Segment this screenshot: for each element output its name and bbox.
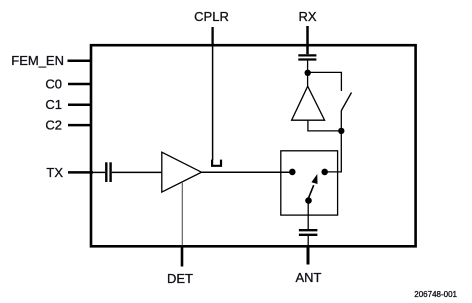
svg-text:TX: TX (46, 165, 63, 180)
svg-text:206748-001: 206748-001 (414, 290, 457, 299)
svg-text:ANT: ANT (296, 270, 322, 285)
wire CPLR inside (212, 46, 214, 160)
svg-text:C0: C0 (45, 76, 62, 91)
wire PA output to switch (202, 171, 293, 173)
wire TX stub (68, 171, 93, 174)
wire C1 stub (68, 104, 92, 107)
wire LNA input loop (308, 120, 341, 131)
switch SPDT box (281, 151, 338, 215)
wire CPLR stub (211, 27, 213, 46)
amplifier LNA (RX path) (292, 86, 325, 120)
switch arm arrow (309, 185, 314, 198)
wire ANT stub (307, 246, 310, 265)
wire C0 stub (68, 83, 92, 86)
amplifier PA (TX path) (162, 152, 202, 192)
wire C2 stub (68, 124, 92, 127)
switch bypass arm (open) (341, 93, 351, 112)
wire DET tap (181, 182, 183, 246)
capacitor ANT (299, 229, 318, 231)
wire TX to capacitor (93, 171, 105, 173)
wire bypass lower (340, 111, 342, 131)
wire RX cap to junction (307, 61, 309, 86)
capacitor RX blocking cap (298, 54, 316, 56)
svg-text:FEM_EN: FEM_EN (11, 53, 64, 68)
node bypass junction (338, 128, 344, 134)
node RX junction (305, 70, 311, 76)
svg-text:CPLR: CPLR (194, 9, 229, 24)
wire switch pole to ANT cap (307, 201, 309, 229)
capacitor TX blocking cap (105, 162, 107, 182)
wire ANT cap to edge (307, 236, 309, 246)
node switch left contact (289, 169, 296, 176)
node switch pole (305, 197, 312, 204)
main block outline (91, 45, 416, 246)
node switch right contact (321, 169, 328, 176)
wire capacitor to amplifier (112, 171, 162, 173)
coupler tap bracket (212, 160, 221, 166)
svg-text:DET: DET (167, 271, 193, 286)
svg-text:C1: C1 (45, 97, 62, 112)
wire RX stub (306, 26, 309, 54)
wire bypass top (308, 72, 342, 91)
svg-text:RX: RX (299, 9, 317, 24)
wire FEM_EN stub (68, 59, 93, 62)
svg-text:C2: C2 (45, 118, 62, 133)
wire bypass to switch right contact (325, 131, 342, 172)
